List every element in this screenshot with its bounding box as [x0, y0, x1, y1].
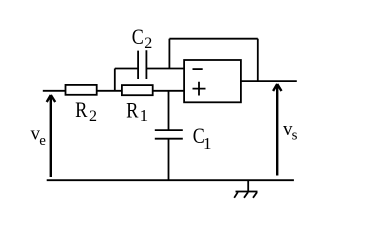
- wire: C2 right lead to op-amp minus input: [146, 68, 184, 70]
- wire: row segment from R1 to op-amp plus input: [153, 90, 184, 92]
- wire: bottom ground rail: [47, 179, 294, 181]
- svg-text:R: R: [75, 98, 88, 122]
- svg-text:2: 2: [144, 35, 152, 52]
- wire: output to v_s node: [241, 80, 297, 82]
- input voltage v_e arrow: [47, 95, 56, 177]
- resistor R1: [122, 85, 153, 95]
- capacitor C1: [155, 130, 183, 139]
- op-amp U1 non-inverting input marker: [193, 82, 206, 96]
- wire: feedback left vertical: [168, 39, 170, 69]
- wire: C1 bottom lead to ground rail: [168, 139, 170, 180]
- capacitor C2: [138, 50, 146, 79]
- ground: [234, 180, 257, 198]
- wire: junction riser from R2-R1 node up to C2: [114, 69, 116, 91]
- svg-text:1: 1: [140, 106, 149, 125]
- output voltage v_s arrow: [273, 84, 281, 176]
- svg-text:s: s: [292, 127, 298, 143]
- svg-text:C: C: [132, 25, 144, 49]
- wire: C2 left lead: [115, 68, 138, 70]
- svg-text:R: R: [126, 99, 139, 123]
- op-amp U1: [184, 60, 241, 102]
- svg-text:2: 2: [89, 108, 97, 125]
- svg-text:1: 1: [203, 134, 212, 153]
- svg-text:e: e: [39, 133, 46, 149]
- wire: C1 top lead from row node: [168, 91, 170, 130]
- wire: row segment between R2 and R1: [97, 90, 122, 92]
- wire: feedback top horizontal: [169, 38, 257, 40]
- resistor R2: [66, 85, 97, 95]
- op-amp U1 inverting input marker: [193, 68, 203, 70]
- wire: input row left segment: [43, 90, 66, 92]
- wire: feedback right vertical to output: [257, 39, 259, 81]
